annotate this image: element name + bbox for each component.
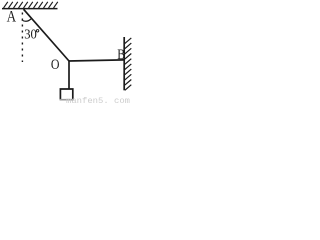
svg-text:O: O	[51, 57, 60, 73]
ceiling line	[2, 8, 58, 10]
rope from O to weight (vertical)	[68, 61, 70, 89]
right wall line	[123, 37, 125, 90]
svg-text:30: 30	[24, 26, 37, 41]
background	[0, 0, 134, 104]
weight block	[60, 89, 72, 100]
rope AO (diagonal)	[24, 9, 69, 61]
svg-text:A: A	[7, 9, 17, 26]
weight block bottom edge (faded)	[60, 99, 74, 101]
svg-text:manfen5. com: manfen5. com	[66, 96, 130, 104]
degree symbol	[36, 30, 38, 32]
ceiling hatching	[4, 2, 58, 8]
rope OB (horizontal)	[69, 60, 125, 61]
right wall hatching	[125, 38, 132, 90]
dashed vertical reference line from A	[21, 13, 23, 63]
angle arc	[22, 18, 32, 21]
